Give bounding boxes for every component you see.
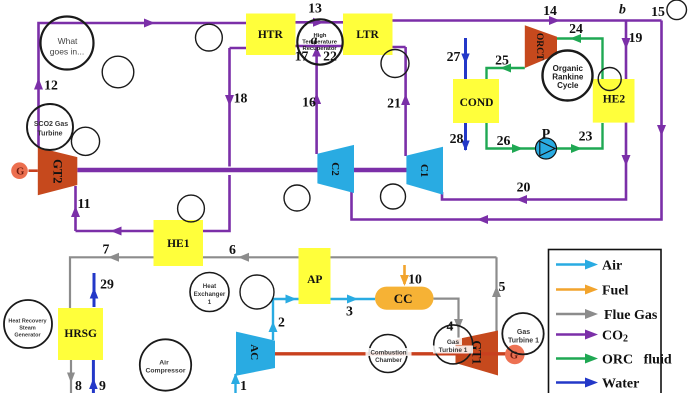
node label 16	[302, 95, 316, 110]
wire 8: HRSG bottom down (flue gas)	[70, 360, 72, 393]
arrow on wire 9	[89, 378, 98, 389]
svg-text:18: 18	[234, 91, 248, 106]
legend entry ORC fluid	[556, 353, 672, 368]
arrow on wire 28	[461, 141, 469, 152]
annotation circle (empty, above HE1)	[178, 195, 205, 222]
arrow on wire 10	[400, 275, 409, 286]
wire 25: ORCT to COND (ORC fluid)	[487, 68, 525, 123]
svg-text:HE2: HE2	[603, 94, 626, 106]
legend entry Fuel	[556, 284, 629, 299]
wire 29: HRSG top up (water/steam)	[93, 273, 96, 307]
wire 27-28: cooling water through COND (water)	[464, 38, 467, 150]
annotation circle (empty, left of C2 bottom)	[284, 185, 310, 211]
arrow on wire 24	[570, 34, 581, 43]
node label 25	[495, 53, 509, 68]
legend entry Water	[556, 377, 639, 392]
svg-text:17: 17	[295, 49, 309, 64]
svg-text:13: 13	[308, 1, 322, 16]
legend entry Air	[556, 259, 622, 274]
svg-text:Exchanger: Exchanger	[194, 291, 226, 298]
svg-text:G: G	[16, 167, 24, 178]
node label 21	[387, 96, 401, 111]
wire 13: HTR to LTR (CO2)	[296, 21, 344, 24]
pump P	[536, 138, 557, 159]
wire 4: CC to GT1 (flue gas)	[434, 299, 459, 338]
annotation circle: What goes in	[41, 17, 94, 70]
annotation circle: Air Compressor	[140, 339, 191, 390]
wire 15: right edge down then left to C2 (CO2)	[352, 21, 662, 220]
wire 5: GT1 top up (flue gas)	[495, 257, 497, 331]
svg-text:Turbine: Turbine	[37, 131, 62, 138]
label AC (rotated)	[248, 344, 260, 360]
compressor C2	[317, 145, 354, 193]
annotation circle (empty, left of C1 bottom)	[381, 184, 406, 209]
annotation circle (empty, on HE2 top-left)	[598, 68, 621, 91]
wire 21: C1 top up to LTR right (CO2)	[393, 47, 406, 156]
node label 18	[234, 91, 248, 106]
node label 22	[323, 49, 337, 64]
svg-text:ORCT: ORCT	[534, 33, 544, 61]
wire 14: LTR to node b and corner (CO2)	[393, 19, 662, 22]
annotation circle: Combustion Chamber	[366, 335, 412, 373]
svg-text:3: 3	[346, 304, 353, 319]
svg-text:Fuel: Fuel	[602, 284, 629, 299]
arrow on wire 8	[67, 373, 75, 384]
label C2 (rotated)	[329, 162, 341, 176]
arrow on wire 2	[286, 295, 297, 304]
svg-text:22: 22	[323, 49, 337, 64]
svg-text:HRSG: HRSG	[64, 328, 97, 340]
arrow on wire 26	[512, 144, 523, 153]
wire 16: C2 top up to recuperator node line (CO2)	[315, 46, 318, 154]
turbine GT1	[456, 331, 499, 376]
label GT2 (rotated)	[50, 159, 64, 183]
svg-text:P: P	[542, 126, 551, 141]
node label 17	[295, 49, 309, 64]
arrow on wire 12 horizontal	[144, 19, 155, 28]
svg-text:11: 11	[77, 196, 90, 211]
svg-text:GT2: GT2	[50, 159, 64, 183]
node label 15	[651, 4, 665, 19]
arrow on wire 12 vertical	[34, 78, 43, 90]
svg-text:Heat Recovery: Heat Recovery	[8, 319, 47, 325]
svg-text:Turbine 1: Turbine 1	[439, 347, 468, 354]
arrow on wire 27	[461, 54, 469, 65]
label GT1 (rotated)	[469, 340, 483, 364]
svg-text:1: 1	[208, 299, 212, 306]
node label 26	[497, 133, 511, 148]
condenser COND	[453, 79, 499, 123]
annotation circle (empty, top-middle)	[196, 24, 223, 51]
arrow on wire 21	[401, 94, 410, 105]
svg-text:5: 5	[499, 279, 506, 294]
node label 23	[579, 129, 593, 144]
air preheater AP	[299, 248, 331, 304]
svg-text:16: 16	[302, 95, 316, 110]
turbine GT2	[38, 147, 78, 195]
svg-text:8: 8	[75, 378, 82, 393]
arrow on wire 25	[500, 64, 511, 73]
svg-text:Combustion: Combustion	[370, 350, 406, 357]
node label 2	[278, 315, 285, 330]
arrow on wire 11 horizontal	[111, 227, 122, 236]
generator G (right, on GT1)	[505, 345, 525, 365]
annotation circle: Heat Exchanger 1	[190, 273, 229, 312]
label P (pump)	[542, 126, 551, 141]
svg-text:Air: Air	[159, 360, 169, 367]
wire 10: fuel into CC top (fuel)	[403, 265, 406, 284]
arrow on wire 16 mid	[312, 93, 321, 104]
svg-text:27: 27	[447, 49, 461, 64]
svg-text:Compressor: Compressor	[145, 368, 185, 375]
svg-text:Heat: Heat	[203, 283, 216, 290]
annotation circle (empty, right of Heat Exchanger 1)	[240, 275, 274, 309]
svg-text:2: 2	[278, 315, 285, 330]
svg-text:1: 1	[240, 378, 247, 393]
node label 29	[100, 277, 114, 292]
wire 24: HE2 top to ORCT (ORC fluid)	[557, 39, 603, 80]
node label 5	[499, 279, 506, 294]
arrow on wire 7	[108, 253, 119, 262]
arrow on wire 23	[571, 144, 582, 153]
node label 27	[447, 49, 461, 64]
arrow on wire 5	[492, 286, 501, 297]
wire 9: feed water into HRSG bottom (water)	[92, 360, 95, 393]
svg-text:26: 26	[497, 133, 511, 148]
arrow on wire 16 top	[312, 47, 321, 57]
arrow on wire 11 vertical	[71, 206, 80, 217]
wire node 17-22: horizontal between HTR and LTR (CO2)	[296, 45, 344, 48]
node label 8	[75, 378, 82, 393]
shaft GT2-C2-C1	[77, 168, 443, 173]
heat exchanger HTR	[246, 14, 296, 56]
svg-text:C1: C1	[418, 164, 430, 177]
arrow on wire 14	[549, 16, 560, 25]
wire 12: GT2 outlet up and right to HTR (CO2)	[39, 23, 247, 148]
svg-text:LTR: LTR	[356, 29, 379, 41]
arrow on wire 1	[231, 373, 240, 384]
node label 9	[99, 378, 106, 393]
svg-text:Chamber: Chamber	[375, 357, 402, 364]
compressor AC	[236, 332, 275, 376]
svg-text:Turbine 1: Turbine 1	[508, 338, 539, 345]
svg-text:9: 9	[99, 378, 106, 393]
svg-text:HE1: HE1	[167, 238, 190, 250]
legend entry Flue Gas	[556, 308, 658, 323]
heat exchanger HE1	[154, 220, 204, 266]
svg-text:CC: CC	[394, 291, 413, 306]
svg-text:Flue Gas: Flue Gas	[604, 308, 658, 323]
svg-text:C2: C2	[329, 162, 341, 176]
node label 6	[229, 242, 236, 257]
node label 14	[543, 3, 557, 18]
arrow on wire 19	[622, 38, 631, 49]
svg-text:12: 12	[44, 78, 58, 93]
wire 2: AC top to AP (air)	[273, 299, 299, 340]
node label 11	[77, 196, 90, 211]
annotation circle: Gas Turbine 1 (left)	[433, 325, 473, 364]
svg-text:Water: Water	[602, 377, 639, 392]
turbine ORCT	[525, 25, 557, 68]
svg-text:Gas: Gas	[447, 339, 460, 346]
arrow on wire 29	[90, 288, 99, 299]
annotation circle (empty, top-right corner)	[667, 0, 687, 20]
shaft AC-GT1	[275, 352, 507, 355]
heat exchanger LTR	[343, 14, 393, 56]
legend box	[549, 250, 662, 393]
svg-text:15: 15	[651, 4, 665, 19]
node label 4	[447, 319, 454, 334]
svg-text:b: b	[619, 2, 626, 17]
svg-text:28: 28	[450, 131, 464, 146]
svg-text:14: 14	[543, 3, 557, 18]
wire 6-7: GT1 exhaust left through HE1 to HRSG (flue gas)	[70, 257, 497, 308]
svg-text:a: a	[311, 32, 318, 47]
svg-text:What: What	[58, 36, 78, 46]
svg-text:AP: AP	[307, 274, 322, 286]
annotation circle: Heat Recovery Steam Generator	[4, 300, 52, 348]
svg-text:21: 21	[387, 96, 401, 111]
node label 10	[408, 272, 422, 287]
svg-text:AC: AC	[248, 344, 260, 360]
heat exchanger HE2	[593, 79, 635, 123]
svg-text:25: 25	[495, 53, 509, 68]
node label 12	[44, 78, 58, 93]
svg-text:7: 7	[103, 242, 110, 257]
svg-text:COND: COND	[460, 97, 494, 109]
svg-text:24: 24	[569, 21, 583, 36]
node label b	[619, 2, 626, 17]
wire 3: AP to CC (air)	[331, 298, 376, 300]
node label 20	[517, 180, 531, 195]
node label a	[311, 32, 318, 47]
wire 11: HE1 left to GT2 inlet (CO2)	[76, 186, 204, 231]
arrow on wire 15 horizontal	[477, 215, 488, 224]
svg-text:Steam: Steam	[19, 326, 36, 332]
node label 28	[450, 131, 464, 146]
annotation circle (empty, below LTR right)	[381, 50, 409, 78]
annotation circle: Gas Turbine 1 (right)	[502, 313, 543, 354]
svg-text:20: 20	[517, 180, 531, 195]
arrow on wire 13	[313, 18, 324, 27]
boiler HRSG	[58, 308, 103, 360]
svg-text:Gas: Gas	[517, 329, 530, 336]
node label 3	[346, 304, 353, 319]
svg-text:4: 4	[447, 319, 454, 334]
wire 26-23: COND down through pump P to HE2 bottom (ORC fluid)	[487, 123, 603, 149]
node label 13	[308, 1, 322, 16]
legend entry CO2	[556, 329, 628, 345]
arrow on wire 18	[225, 95, 234, 106]
annotation circle: High Temperature Recuperator	[297, 19, 342, 64]
annotation circle: SCO2 Gas Turbine	[27, 104, 73, 150]
label C1 (rotated)	[418, 164, 430, 177]
svg-text:Temperature: Temperature	[302, 40, 337, 46]
generator G (left, on GT2)	[11, 162, 38, 179]
node label 7	[103, 242, 110, 257]
svg-text:HTR: HTR	[258, 29, 284, 41]
node label 24	[569, 21, 583, 36]
arrow on wire 6	[238, 253, 249, 262]
svg-text:6: 6	[229, 242, 236, 257]
svg-text:Air: Air	[602, 259, 622, 274]
arrow on wire 20 horizontal	[516, 195, 527, 204]
arrow on wire 20 vertical below HE2	[622, 155, 631, 166]
svg-text:Cycle: Cycle	[557, 81, 579, 90]
wire 1: air inlet into AC (air)	[234, 374, 236, 393]
annotation circle: Organic Rankine Cycle	[543, 51, 593, 101]
node label 19	[629, 30, 643, 45]
arrow on wire 2 vertical	[269, 322, 278, 333]
annotation circle (empty, on GT2 top right)	[71, 127, 99, 155]
combustor CC	[375, 287, 434, 310]
svg-text:goes in...: goes in...	[50, 47, 85, 57]
svg-text:SCO2 Gas: SCO2 Gas	[34, 121, 68, 128]
arrow on wire 15 vertical	[657, 125, 666, 136]
annotation circle (empty, top-left)	[102, 56, 134, 88]
arrow on wire 3	[347, 295, 358, 304]
svg-text:29: 29	[100, 277, 114, 292]
svg-text:ORC fluid: ORC fluid	[602, 353, 672, 368]
svg-text:23: 23	[579, 129, 593, 144]
wire 18: HTR left down to HE1 (CO2, gap at shaft crossing)	[204, 48, 247, 231]
wire 19-20: node b down through HE2 then left to C1 (CO2)	[442, 21, 626, 200]
arrow on wire 4	[454, 319, 463, 330]
node label 1	[240, 378, 247, 393]
svg-text:Generator: Generator	[14, 333, 41, 339]
svg-text:10: 10	[408, 272, 422, 287]
svg-text:19: 19	[629, 30, 643, 45]
compressor C1	[406, 147, 443, 195]
